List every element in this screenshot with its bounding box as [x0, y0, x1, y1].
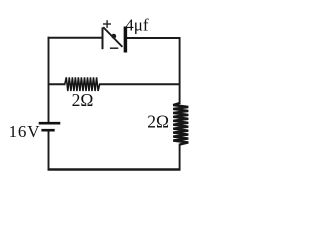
resistor R1 (middle, coil)	[65, 77, 100, 91]
svg-text:16V: 16V	[9, 122, 41, 141]
capacitor C1 diagonal arm	[103, 27, 122, 47]
wire middle left	[49, 83, 66, 85]
wire right edge upper	[179, 37, 181, 104]
capacitor C1 pivot dot	[111, 34, 116, 39]
resistor R2 (right, coil)	[173, 103, 188, 145]
wire right edge lower	[179, 144, 181, 171]
capacitor C1 right plate	[124, 27, 128, 53]
wire bottom	[48, 168, 181, 171]
wire top-left	[48, 37, 102, 39]
svg-text:2Ω: 2Ω	[72, 90, 94, 110]
wire left edge upper	[48, 37, 50, 122]
svg-text:4μf: 4μf	[125, 16, 149, 35]
svg-text:2Ω: 2Ω	[147, 111, 169, 131]
battery B1 short plate	[41, 129, 54, 132]
polarity + label	[103, 20, 111, 28]
battery B1 long plate	[39, 122, 61, 125]
wire left edge lower	[48, 131, 50, 170]
wire top-right	[126, 37, 181, 39]
wire middle right	[99, 83, 180, 85]
capacitor C1 left plate	[102, 27, 104, 49]
polarity - label	[110, 47, 118, 49]
